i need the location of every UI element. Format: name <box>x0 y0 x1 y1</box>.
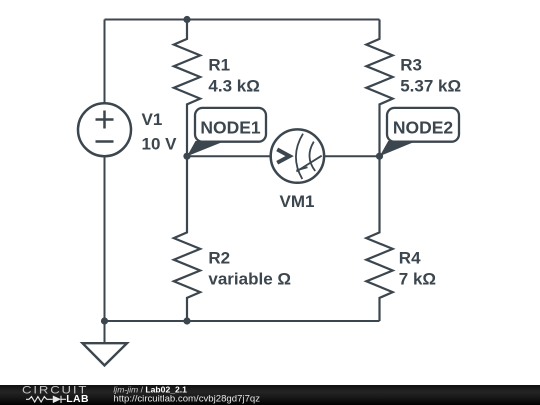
svg-text:R1: R1 <box>208 56 230 75</box>
svg-text:http://circuitlab.com/cvbj28gd: http://circuitlab.com/cvbj28gd7j7qz <box>113 394 260 405</box>
svg-text:4.3 kΩ: 4.3 kΩ <box>208 76 259 95</box>
svg-text:NODE2: NODE2 <box>393 118 454 138</box>
svg-text:7 kΩ: 7 kΩ <box>399 269 436 288</box>
svg-text:10 V: 10 V <box>142 135 178 154</box>
svg-text:R2: R2 <box>208 249 230 268</box>
svg-text:R4: R4 <box>399 249 421 268</box>
svg-text:5.37 kΩ: 5.37 kΩ <box>400 76 461 95</box>
svg-text:R3: R3 <box>400 56 422 75</box>
svg-text:VM1: VM1 <box>280 192 315 211</box>
svg-text:NODE1: NODE1 <box>200 118 261 138</box>
svg-text:LAB: LAB <box>66 394 89 405</box>
svg-text:V1: V1 <box>142 110 163 129</box>
svg-text:variable Ω: variable Ω <box>208 269 291 288</box>
